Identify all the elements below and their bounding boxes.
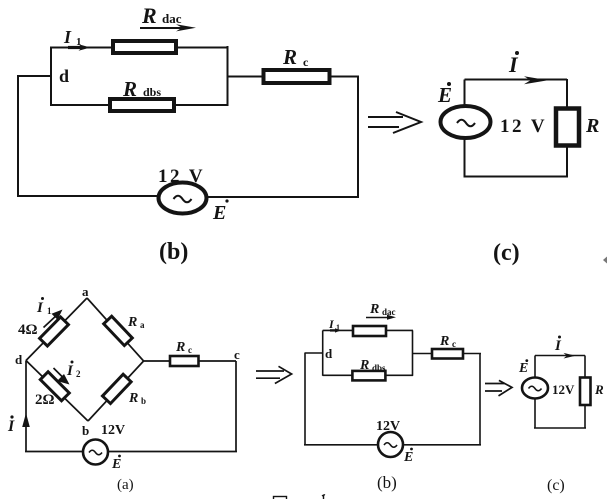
svg-text:E: E [403,450,413,465]
svg-text:E: E [518,361,528,376]
svg-text:dbs: dbs [372,363,386,373]
svg-text:R: R [141,3,157,28]
svg-text:I: I [508,52,519,77]
svg-text:dac: dac [382,307,396,317]
svg-text:(b): (b) [377,473,397,492]
svg-text:R: R [585,115,599,137]
svg-text:E: E [111,457,121,472]
svg-text:I: I [66,363,74,379]
svg-text:1: 1 [47,306,52,316]
svg-text:I: I [36,300,44,316]
svg-text:c: c [303,55,309,69]
svg-text:2: 2 [76,369,81,379]
svg-text:a: a [82,284,89,299]
svg-text:12V: 12V [552,382,575,397]
svg-text:(b): (b) [159,239,188,265]
svg-text:R: R [369,302,379,317]
svg-text:c: c [234,347,240,362]
svg-text:(a): (a) [117,477,134,493]
svg-text:dac: dac [162,11,182,26]
svg-text:d: d [15,352,23,367]
svg-text:I: I [554,338,562,354]
svg-text:R: R [439,334,449,349]
svg-text:12V: 12V [101,423,125,438]
svg-text:R: R [127,315,137,330]
svg-text:dbs: dbs [143,85,161,99]
svg-text:R: R [122,77,137,101]
svg-text:d: d [59,66,69,86]
svg-text:(c): (c) [547,477,565,494]
svg-text:1: 1 [76,36,82,48]
svg-text:b: b [82,423,89,438]
svg-text:R: R [359,358,369,373]
svg-text:(c): (c) [493,240,520,266]
svg-text:a: a [140,320,145,330]
svg-text:R: R [128,391,138,406]
svg-text:b: b [141,396,146,406]
svg-text:R: R [175,340,185,355]
svg-text:4Ω: 4Ω [18,322,38,338]
svg-text:I: I [7,418,15,435]
svg-text:E: E [212,202,226,224]
svg-text:12 V: 12 V [500,116,547,137]
svg-text:c: c [452,339,456,349]
svg-text:I: I [63,27,72,47]
svg-text:1: 1 [336,323,340,332]
svg-text:2Ω: 2Ω [35,392,55,408]
svg-text:12V: 12V [376,419,400,434]
svg-text:d: d [325,346,333,361]
svg-text:E: E [437,83,452,107]
svg-text:12 V: 12 V [158,166,205,187]
svg-text:c: c [188,345,192,355]
svg-text:R: R [594,382,604,397]
svg-text:R: R [282,45,297,69]
